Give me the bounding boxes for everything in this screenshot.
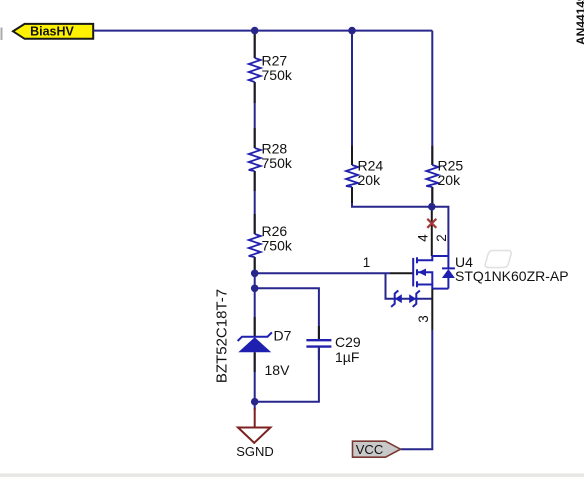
svg-text:VCC: VCC xyxy=(356,442,383,457)
svg-text:3: 3 xyxy=(416,315,431,323)
no-connect X on pin 4 xyxy=(427,219,436,228)
svg-text:D7: D7 xyxy=(274,327,292,343)
junction node bottom xyxy=(251,398,259,406)
left zener bar xyxy=(391,291,398,307)
wire C29 branch bottom xyxy=(255,347,319,402)
junction node at BiasHV / R27 xyxy=(251,27,259,35)
resistor R26 xyxy=(249,223,293,257)
resistor R28 xyxy=(249,141,293,172)
svg-text:750k: 750k xyxy=(262,67,293,83)
svg-text:750k: 750k xyxy=(262,155,293,171)
pin leads R24 xyxy=(351,146,353,203)
svg-text:BiasHV: BiasHV xyxy=(30,25,74,39)
svg-text:AN44149: AN44149 xyxy=(574,0,584,45)
svg-text:2: 2 xyxy=(434,234,449,242)
body diode xyxy=(432,250,455,289)
wire gate from divider node xyxy=(255,272,390,274)
capacitor C29 xyxy=(306,334,360,365)
U4 gate pin lead xyxy=(390,272,413,274)
wire to ground xyxy=(254,402,256,410)
gate plate xyxy=(412,258,414,287)
pin leads (black) on main column xyxy=(254,32,256,372)
power flag VCC xyxy=(353,441,401,457)
drain pins bar xyxy=(432,255,449,257)
svg-text:C29: C29 xyxy=(335,334,361,350)
junction node at R24 top xyxy=(348,27,356,35)
resistor R27 xyxy=(249,53,293,83)
net flag BiasHV xyxy=(13,24,93,39)
source bottom stub xyxy=(417,285,432,289)
resistor R24 xyxy=(346,158,383,189)
svg-text:20k: 20k xyxy=(438,172,462,188)
ground SGND xyxy=(236,408,274,459)
U4 source pin 3 lead xyxy=(431,289,433,330)
source arrow stub xyxy=(417,272,432,284)
channel segments xyxy=(416,257,418,287)
svg-text:18V: 18V xyxy=(265,362,291,378)
drain stub xyxy=(417,256,432,260)
U4 gate protection zeners xyxy=(386,273,433,307)
wire top horizontal BiasHV bus xyxy=(93,30,432,32)
transistor U4 MOSFET body xyxy=(413,250,455,289)
wire source to VCC xyxy=(401,330,433,449)
svg-text:1µF: 1µF xyxy=(335,349,359,365)
junction node at drain divider xyxy=(428,203,436,211)
junction node gate tap xyxy=(251,270,259,278)
wire main left column xyxy=(254,31,256,402)
svg-text:STQ1NK60ZR-AP: STQ1NK60ZR-AP xyxy=(455,268,569,284)
wire R25 column xyxy=(431,31,433,207)
wire R24 column xyxy=(352,31,432,207)
svg-text:750k: 750k xyxy=(262,237,293,253)
resistor R25 xyxy=(426,158,463,189)
right zener bar xyxy=(413,291,420,307)
svg-text:20k: 20k xyxy=(358,172,382,188)
svg-text:BZT52C18T-7: BZT52C18T-7 xyxy=(214,289,231,383)
svg-text:SGND: SGND xyxy=(236,444,274,459)
edge artifact mark xyxy=(1,28,3,41)
pin leads R25 xyxy=(431,146,433,203)
watermark ghost xyxy=(485,251,511,268)
junction node C29 tap xyxy=(251,285,259,293)
figure bottom rule xyxy=(0,473,584,477)
C29 pin leads xyxy=(318,326,320,360)
wire C29 branch top xyxy=(255,288,319,340)
U4 pin 4 lead xyxy=(431,207,433,256)
svg-text:4: 4 xyxy=(416,234,431,242)
svg-text:1: 1 xyxy=(363,255,371,270)
zener diode D7 xyxy=(214,289,292,383)
wire drain jog to pin 2 xyxy=(432,207,449,250)
